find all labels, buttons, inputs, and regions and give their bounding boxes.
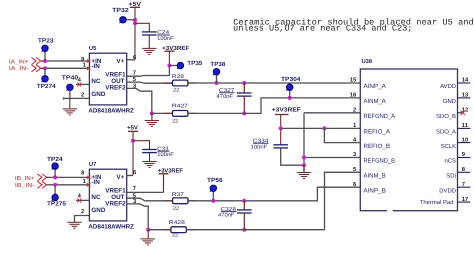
svg-text:2: 2 xyxy=(81,91,84,98)
svg-text:IB_IN+: IB_IN+ xyxy=(15,176,35,182)
svg-text:2: 2 xyxy=(353,107,356,114)
svg-text:TP24: TP24 xyxy=(47,156,63,163)
svg-text:22: 22 xyxy=(173,206,179,212)
svg-text:V+: V+ xyxy=(116,58,124,65)
svg-text:GND: GND xyxy=(91,207,105,214)
svg-text:TP38: TP38 xyxy=(210,61,226,68)
svg-text:+3V3REF: +3V3REF xyxy=(158,167,183,174)
svg-text:SDO_B: SDO_B xyxy=(436,113,456,120)
svg-text:+3V3REF: +3V3REF xyxy=(272,107,302,114)
svg-text:REFIO_B: REFIO_B xyxy=(364,143,391,150)
svg-text:IB_IN-: IB_IN- xyxy=(15,183,35,189)
svg-text:AINP_B: AINP_B xyxy=(364,187,386,194)
svg-text:15: 15 xyxy=(350,78,357,84)
svg-text:470nF: 470nF xyxy=(217,94,234,100)
svg-text:TP32: TP32 xyxy=(112,7,129,14)
svg-text:100nF: 100nF xyxy=(157,152,174,158)
svg-text:IA_IN+: IA_IN+ xyxy=(9,60,29,66)
svg-text:TP35: TP35 xyxy=(187,60,203,67)
svg-text:SDI: SDI xyxy=(446,173,456,180)
svg-text:AD8418AWHRZ: AD8418AWHRZ xyxy=(88,223,134,230)
svg-text:DVDD: DVDD xyxy=(439,187,456,194)
svg-text:470nF: 470nF xyxy=(218,213,235,219)
svg-text:AINM_A: AINM_A xyxy=(364,98,387,105)
svg-text:NC: NC xyxy=(91,194,101,201)
svg-text:TP40: TP40 xyxy=(62,75,79,82)
svg-text:TP56: TP56 xyxy=(207,177,223,184)
svg-text:10: 10 xyxy=(462,136,468,143)
svg-text:Thermal Pad: Thermal Pad xyxy=(420,199,454,206)
svg-text:TP23: TP23 xyxy=(38,38,54,45)
svg-text:R37: R37 xyxy=(172,192,184,198)
svg-text:SCLK: SCLK xyxy=(441,143,456,150)
svg-text:7: 7 xyxy=(133,70,136,76)
svg-text:+5V: +5V xyxy=(127,124,138,131)
svg-text:-IN: -IN xyxy=(91,63,100,70)
svg-text:AINP_A: AINP_A xyxy=(364,83,387,90)
svg-text:nCS: nCS xyxy=(445,158,457,165)
svg-text:11: 11 xyxy=(462,123,469,129)
svg-text:GND: GND xyxy=(91,91,105,98)
svg-text:TP274: TP274 xyxy=(37,83,57,90)
svg-text:R428: R428 xyxy=(169,220,185,226)
svg-text:unless U5,U7 are near C334 and: unless U5,U7 are near C334 and C23; xyxy=(233,24,412,34)
svg-text:IA_IN-: IA_IN- xyxy=(9,66,29,72)
svg-text:22: 22 xyxy=(172,118,178,124)
svg-text:22: 22 xyxy=(173,88,179,94)
svg-text:13: 13 xyxy=(462,92,469,99)
svg-text:7: 7 xyxy=(133,186,136,192)
svg-text:17: 17 xyxy=(462,197,468,203)
svg-text:TP304: TP304 xyxy=(281,76,301,83)
svg-text:AINM_B: AINM_B xyxy=(364,173,386,180)
svg-text:VREF2: VREF2 xyxy=(105,201,126,208)
svg-text:TP275: TP275 xyxy=(47,201,67,208)
svg-text:R427: R427 xyxy=(172,103,188,109)
svg-text:U7: U7 xyxy=(89,162,96,168)
svg-text:U5: U5 xyxy=(89,46,97,52)
svg-text:14: 14 xyxy=(462,78,469,84)
svg-text:SDO_A: SDO_A xyxy=(436,129,456,136)
svg-text:REFGND_B: REFGND_B xyxy=(364,158,396,165)
svg-text:AVDD: AVDD xyxy=(440,83,456,90)
svg-text:16: 16 xyxy=(350,92,357,99)
svg-text:REFIO_A: REFIO_A xyxy=(364,129,391,136)
svg-text:-IN: -IN xyxy=(91,179,100,186)
svg-text:REFGND_A: REFGND_A xyxy=(364,113,396,120)
svg-text:22: 22 xyxy=(172,233,178,239)
svg-text:V+: V+ xyxy=(116,174,124,181)
svg-text:+5V: +5V xyxy=(128,1,141,8)
svg-text:R28: R28 xyxy=(172,74,184,80)
svg-text:+3V3REF: +3V3REF xyxy=(162,45,190,52)
svg-text:GND: GND xyxy=(443,98,456,105)
svg-text:2: 2 xyxy=(81,208,84,215)
svg-text:VREF2: VREF2 xyxy=(105,85,126,92)
svg-text:AD8418AWHRZ: AD8418AWHRZ xyxy=(88,107,134,114)
svg-text:7: 7 xyxy=(462,182,465,188)
svg-text:NC: NC xyxy=(91,78,101,85)
svg-text:U38: U38 xyxy=(362,58,373,65)
svg-text:100nF: 100nF xyxy=(251,144,268,150)
svg-text:100nF: 100nF xyxy=(157,36,174,42)
